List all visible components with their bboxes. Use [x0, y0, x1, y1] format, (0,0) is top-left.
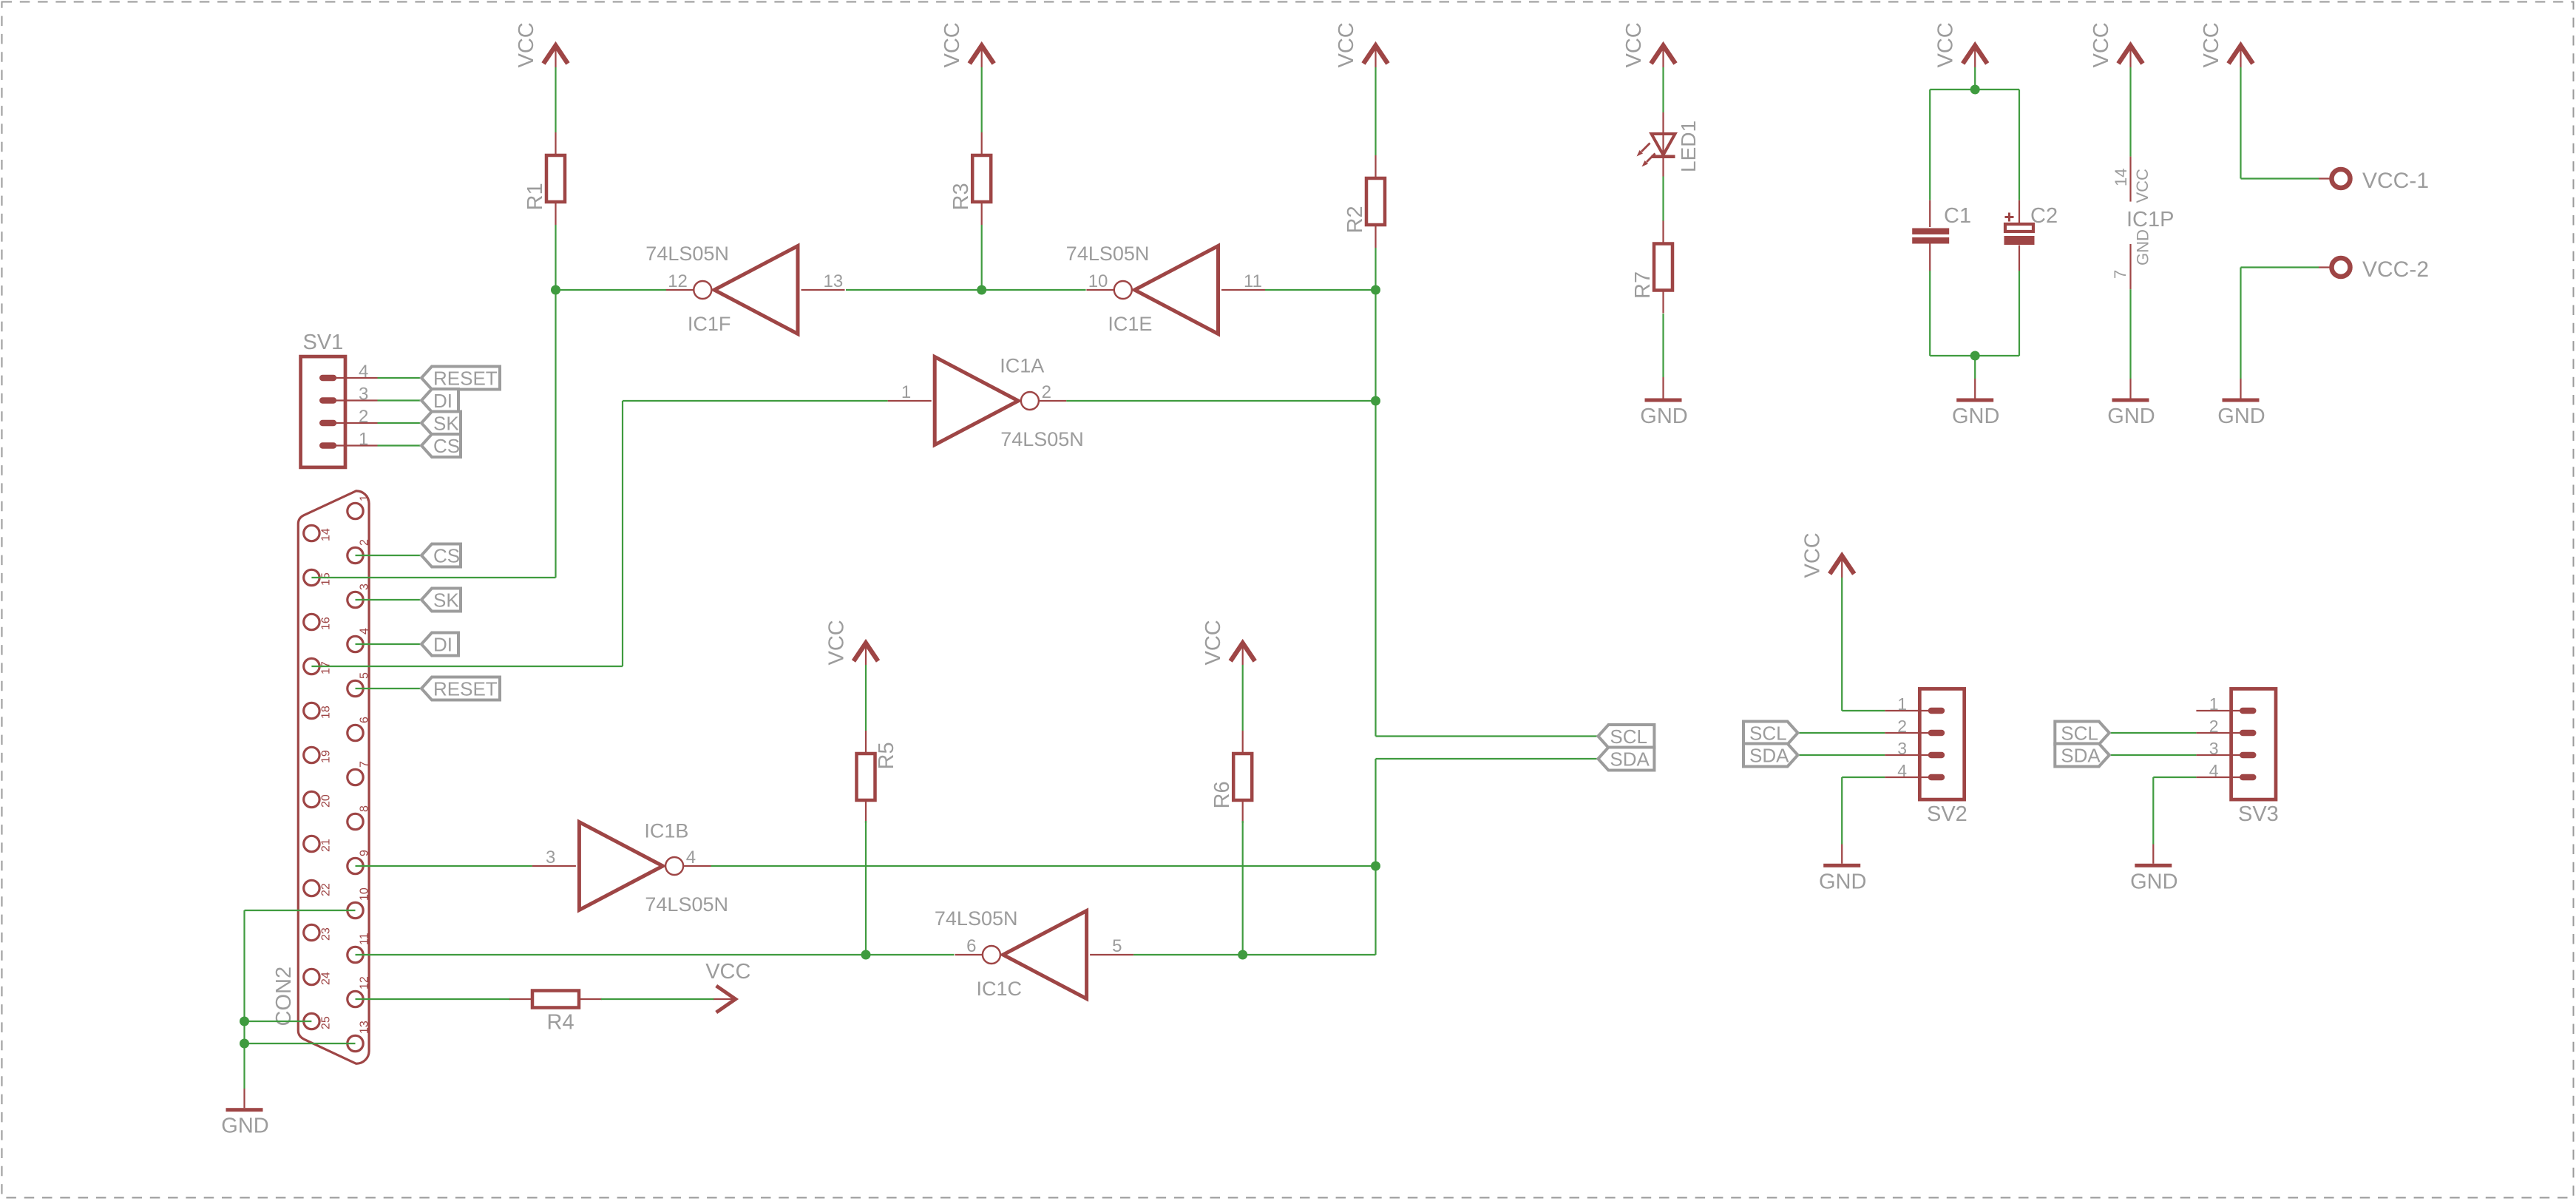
power VCC symbol (above LED1) [1622, 22, 1675, 67]
wire C1 to bottom rail [1929, 271, 1931, 356]
svg-text:1: 1 [359, 495, 371, 501]
wire SV3 GND drop [2152, 777, 2154, 845]
SV3 pad pin 2 [2240, 730, 2257, 736]
svg-text:74LS05N: 74LS05N [645, 243, 729, 265]
net label DI (CON2) [421, 633, 458, 656]
inverter IC1C [935, 907, 1133, 1000]
inverter IC1E [1066, 243, 1265, 335]
svg-text:1: 1 [1897, 694, 1907, 714]
junction CON2 GND / pin 25 [240, 1017, 249, 1026]
wire CON2 pin11 to IC1C pin 6 (via R5 node) [356, 954, 955, 955]
svg-text:21: 21 [320, 839, 333, 852]
svg-text:3: 3 [359, 385, 368, 405]
SV1 pad pin 4 [319, 375, 336, 381]
svg-text:5: 5 [1112, 936, 1122, 956]
wire to SCL flag [1376, 735, 1599, 737]
power VCC symbol (above IC1P) [2089, 22, 2143, 67]
svg-text:3: 3 [359, 583, 371, 590]
wire CON2 to flag RESET [356, 688, 424, 689]
net label SDA (SV3) [2055, 744, 2109, 767]
SV2 pad pin 2 [1928, 730, 1945, 736]
junction R5 / IC1C out / pin11 [861, 950, 871, 960]
svg-text:GND: GND [2134, 229, 2152, 265]
svg-text:14: 14 [320, 528, 333, 541]
svg-text:4: 4 [359, 628, 371, 635]
ground GND (CON2) [221, 1108, 268, 1138]
wire from SDA flag [1376, 758, 1599, 759]
resistor R3 [949, 132, 991, 225]
resistor R2 [1343, 155, 1385, 248]
wire VCC to R5 [865, 665, 867, 731]
node VCC-2 pin circle [2332, 258, 2350, 277]
svg-text:IC1P: IC1P [2126, 208, 2174, 231]
pin GND stub (SV2) [1841, 845, 1843, 864]
wire VCC to SV2 pin 1 [1841, 578, 1843, 711]
svg-text:74LS05N: 74LS05N [1066, 243, 1150, 265]
svg-text:SV2: SV2 [1927, 802, 1967, 826]
wire SCL flag to SV3 pin 2 [2109, 732, 2197, 734]
SV2 pin 4 lead [1885, 777, 1936, 778]
CON2 pad pin 17 [304, 658, 319, 674]
svg-text:10: 10 [1088, 271, 1108, 291]
wire VCC to R3 [981, 67, 983, 132]
wire corner to IC1C pin 5 [1133, 954, 1375, 955]
CON2 pad pin 8 [348, 813, 363, 829]
CON2 pad pin 9 [348, 858, 363, 873]
CON2 pad pin 5 [348, 680, 363, 696]
wire VCC to R6 [1242, 665, 1244, 731]
svg-text:CS: CS [433, 435, 460, 457]
svg-text:RESET: RESET [433, 368, 498, 390]
wire SV1 pin 2 to flag SK [378, 422, 424, 424]
wire CON2 pin 25 (GND net) [245, 1021, 312, 1022]
svg-text:C2: C2 [2030, 204, 2058, 228]
net label SK (CON2) [421, 589, 461, 612]
wire R6 to IC1C in net [1242, 821, 1244, 955]
CON2 pad pin 4 [348, 636, 363, 652]
svg-text:3: 3 [2209, 739, 2219, 758]
CON2 pad pin 1 [348, 503, 363, 518]
wire VCC corner to SV2 pin1 [1842, 710, 1885, 711]
inverter IC1F [645, 243, 844, 335]
svg-text:VCC-2: VCC-2 [2362, 257, 2429, 282]
wire CON2 GND riser [243, 910, 245, 1089]
IC1P pin 14 VCC [2112, 157, 2152, 203]
svg-text:VCC-1: VCC-1 [2362, 169, 2429, 193]
CON2 pad pin 18 [304, 703, 319, 718]
wire node to IC1F pin 12 [556, 289, 667, 291]
wire SV1 pin 4 to flag RESET [378, 377, 424, 379]
pin GND stub (LED branch) [1662, 377, 1664, 399]
net label SCL (SV3) [2055, 722, 2109, 745]
svg-text:74LS05N: 74LS05N [645, 893, 728, 916]
wire cap bottom rail [1930, 355, 2019, 356]
net label RESET (SV1 pin 4) [421, 367, 500, 390]
power VCC symbol (right of R4) [705, 960, 750, 1012]
svg-text:SV3: SV3 [2238, 802, 2279, 826]
wire R3 to node [981, 225, 983, 290]
wire CON2 pin 17 row [311, 666, 623, 667]
pin GND stub (VCC-2) [2240, 379, 2241, 399]
wire SV3 pin 4 to GND corner [2153, 777, 2196, 778]
svg-text:8: 8 [359, 805, 371, 812]
svg-text:2: 2 [2209, 717, 2219, 736]
ground GND (caps) [1952, 399, 1999, 429]
CON2 pad pin 13 [348, 1035, 363, 1051]
svg-text:1: 1 [901, 382, 911, 402]
wire SV2 GND drop [1841, 777, 1843, 845]
svg-text:2: 2 [359, 539, 371, 546]
svg-text:SK: SK [433, 413, 459, 435]
svg-text:16: 16 [320, 617, 333, 630]
wire VCC arrow down [2240, 67, 2241, 179]
resistor R5 [857, 731, 899, 823]
svg-text:VCC: VCC [2133, 169, 2152, 203]
svg-text:13: 13 [824, 271, 844, 291]
pin VCC-1 stub [2319, 177, 2331, 179]
svg-text:IC1F: IC1F [688, 313, 731, 335]
SV2 pin 3 lead [1885, 754, 1936, 756]
connector SV1 body [301, 356, 345, 467]
svg-text:12: 12 [359, 976, 371, 989]
wire SDA flag to SV2 pin 3 [1798, 754, 1885, 756]
wire CON2 pin 9 to IC1B pin 3 [356, 865, 532, 867]
CON2 pad pin 25 [304, 1013, 319, 1029]
CON2 pad pin 3 [348, 592, 363, 607]
svg-text:15: 15 [320, 572, 333, 586]
svg-text:GND: GND [2107, 405, 2155, 428]
power VCC symbol (above R1) [515, 22, 568, 67]
svg-text:2: 2 [359, 407, 368, 427]
net label SK (SV1 pin 2) [421, 412, 461, 435]
svg-text:7: 7 [359, 761, 371, 768]
IC1P pin 7 GND [2111, 229, 2152, 289]
SV3 pin 3 lead [2196, 754, 2248, 756]
svg-text:SV1: SV1 [303, 331, 344, 354]
SV3 pin 2 lead [2196, 732, 2248, 734]
wire SV1 pin 1 to flag CS [378, 444, 424, 446]
svg-text:VCC: VCC [2200, 22, 2223, 67]
wire VCC to R1 [555, 67, 556, 132]
ground GND (SV2) [1819, 864, 1866, 894]
power VCC symbol (above R2) [1335, 22, 1388, 67]
SV2 pad pin 1 [1928, 708, 1945, 714]
svg-text:VCC: VCC [940, 22, 964, 67]
svg-text:14: 14 [2112, 169, 2130, 186]
power VCC symbol (above R5) [825, 620, 878, 665]
SV2 pin 2 lead [1885, 732, 1936, 734]
net label RESET (CON2) [421, 677, 500, 700]
svg-text:19: 19 [320, 750, 333, 763]
SV2 pad pin 3 [1928, 752, 1945, 758]
CON2 pad pin 15 [304, 569, 319, 585]
svg-text:GND: GND [221, 1114, 268, 1138]
svg-text:IC1E: IC1E [1108, 313, 1152, 335]
wire CON2 pin 15 to R1 node [311, 577, 555, 578]
svg-text:11: 11 [1244, 271, 1262, 291]
wire LED1 to R7 [1662, 177, 1664, 222]
inverter gate IC1A (74LS05N) [888, 355, 1084, 451]
SV1 pin 3 lead [329, 399, 378, 401]
power VCC symbol (above SV2) [1801, 532, 1854, 578]
svg-text:24: 24 [320, 972, 333, 985]
junction CON2 GND / pin 13 [240, 1039, 249, 1049]
wire rail to C2 [2019, 89, 2020, 200]
svg-text:4: 4 [2209, 761, 2219, 780]
svg-text:13: 13 [359, 1021, 371, 1034]
wire CON2 pin 13 (GND net) [245, 1043, 356, 1044]
SV1 pad pin 3 [319, 397, 336, 403]
wire SCL flag to SV2 pin 2 [1798, 732, 1885, 734]
CON2 pad pin 10 [348, 902, 363, 918]
svg-text:R2: R2 [1343, 206, 1367, 233]
junction IC1A output / SCL rail [1371, 396, 1380, 406]
CON2 pad pin 11 [348, 947, 363, 962]
CON2 pad pin 14 [304, 525, 319, 541]
connector SV2 body [1919, 689, 1964, 799]
svg-text:R3: R3 [949, 183, 973, 210]
svg-text:VCC: VCC [1934, 22, 1958, 67]
wire IC1P pin7 to GND [2129, 289, 2131, 379]
SV1 pad pin 1 [319, 442, 336, 448]
wire R4 to VCC [601, 998, 714, 1000]
power VCC symbol (above R3) [940, 22, 994, 67]
wire node down to CON2 pin15 row [555, 290, 556, 578]
wire SV1 pin 3 to flag DI [378, 399, 424, 401]
SV1 pin 4 lead [329, 377, 378, 379]
svg-text:7: 7 [2111, 270, 2129, 279]
svg-text:3: 3 [1897, 739, 1907, 758]
SV2 pad pin 4 [1928, 774, 1945, 780]
junction R1 / IC1F out / pin15 net [551, 285, 560, 295]
svg-text:11: 11 [359, 933, 371, 945]
SV3 pad pin 1 [2240, 708, 2257, 714]
power VCC symbol (above R6) [1201, 620, 1255, 665]
junction R6 / IC1C in [1238, 950, 1247, 960]
svg-text:25: 25 [320, 1016, 333, 1029]
svg-text:10: 10 [359, 887, 371, 901]
svg-text:R7: R7 [1631, 271, 1655, 299]
svg-text:VCC: VCC [705, 960, 750, 984]
wire CON2 pin17 net to IC1A pin 1 [623, 400, 888, 402]
CON2 pad pin 22 [304, 880, 319, 896]
svg-text:IC1A: IC1A [1000, 355, 1044, 377]
svg-text:6: 6 [966, 936, 976, 956]
junction SDA rail / IC1B out [1371, 862, 1380, 871]
inverter gate IC1B (74LS05N) [532, 820, 728, 916]
ground GND (SV3) [2130, 864, 2177, 894]
junction R2 / IC1E in [1371, 285, 1380, 295]
wire VCC to IC1P pin 14 [2129, 67, 2131, 157]
svg-text:GND: GND [2130, 870, 2177, 893]
CON2 pad pin 20 [304, 791, 319, 807]
svg-text:SDA: SDA [2061, 745, 2101, 767]
CON2 pad pin 6 [348, 725, 363, 740]
net label SCL (SV2) [1743, 722, 1798, 745]
SV3 pin 4 lead [2196, 777, 2248, 778]
SV2 pin 1 lead [1885, 710, 1936, 711]
wire R7 to GND [1662, 314, 1664, 377]
pin GND stub (CON2) [243, 1089, 245, 1108]
svg-text:5: 5 [359, 672, 371, 679]
wire IC1B pin 4 to rail [711, 865, 1376, 867]
svg-text:LED1: LED1 [1677, 121, 1700, 172]
junction cap bottom rail [1970, 351, 1980, 361]
power VCC symbol (top right, to VCC-1) [2200, 22, 2253, 67]
wire rail to GND [1974, 356, 1976, 379]
resistor R4 [509, 991, 602, 1035]
svg-text:VCC: VCC [825, 620, 849, 665]
capacitor C1 [1912, 200, 1971, 271]
svg-text:R6: R6 [1210, 781, 1234, 808]
SV3 pad pin 4 [2240, 774, 2257, 780]
svg-text:1: 1 [359, 430, 368, 450]
wire rail to IC1C input row [1375, 866, 1376, 955]
svg-text:GND: GND [2217, 405, 2265, 428]
svg-text:9: 9 [359, 850, 371, 856]
net label SCL (mid) [1598, 725, 1654, 748]
svg-text:6: 6 [359, 717, 371, 723]
SV3 pin 1 lead [2196, 710, 2248, 711]
svg-text:SCL: SCL [1610, 725, 1647, 748]
CON2 pad pin 19 [304, 747, 319, 762]
svg-text:22: 22 [320, 883, 333, 896]
svg-text:VCC: VCC [515, 22, 538, 67]
SV1 pin 2 lead [329, 422, 378, 424]
svg-text:VCC: VCC [1801, 532, 1825, 578]
svg-text:VCC: VCC [1201, 620, 1225, 665]
pin GND stub (IC1P) [2129, 379, 2131, 399]
CON2 pad pin 12 [348, 991, 363, 1007]
svg-text:CON2: CON2 [272, 967, 296, 1026]
svg-text:SCL: SCL [1749, 723, 1787, 745]
wire CON2 pin 12 to R4 [356, 998, 511, 1000]
SV1 pad pin 2 [319, 420, 336, 426]
connector CON2 body (DB25) [298, 491, 369, 1063]
resistor R6 [1210, 731, 1252, 823]
svg-text:17: 17 [320, 661, 333, 674]
wire CON2 pin 10 (GND net) [245, 910, 356, 911]
wire rail to C1 [1929, 89, 1931, 200]
svg-text:4: 4 [1897, 761, 1907, 780]
svg-text:VCC: VCC [2089, 22, 2113, 67]
svg-text:18: 18 [320, 706, 333, 719]
wire vertical DI/pin17 riser [622, 401, 623, 666]
svg-text:3: 3 [546, 848, 555, 867]
svg-text:74LS05N: 74LS05N [1000, 428, 1084, 450]
wire SDA rail down [1375, 759, 1376, 866]
junction R3 / IC1F-IC1E net [977, 285, 986, 295]
wire R1 to node [555, 225, 556, 290]
CON2 pad pin 7 [348, 769, 363, 785]
ground GND (IC1P) [2107, 399, 2155, 429]
svg-text:IC1B: IC1B [644, 820, 688, 842]
svg-text:SK: SK [433, 589, 459, 612]
wire R5 to IC1C out net [865, 821, 867, 955]
junction cap top rail [1970, 85, 1980, 95]
svg-text:DI: DI [433, 634, 453, 656]
svg-text:C1: C1 [1944, 204, 1971, 228]
wire IC1E pin 11 to R2 node [1265, 289, 1376, 291]
CON2 pad pin 21 [304, 836, 319, 851]
node VCC-1 pin circle [2332, 169, 2350, 188]
svg-text:2: 2 [1897, 717, 1907, 736]
resistor R1 [523, 132, 565, 225]
wire VCC to LED1 [1662, 67, 1664, 112]
svg-text:23: 23 [320, 927, 333, 941]
connector SV3 body [2231, 689, 2276, 799]
wire CON2 to flag DI [356, 643, 424, 645]
svg-text:IC1C: IC1C [977, 978, 1023, 1000]
svg-text:CS: CS [433, 545, 460, 567]
wire R2 node down to IC1A out node [1375, 290, 1376, 401]
net label SDA (mid) [1598, 748, 1654, 771]
SV1 pin 1 lead [329, 444, 378, 446]
SV3 pad pin 3 [2240, 752, 2257, 758]
CON2 pad pin 2 [348, 547, 363, 563]
svg-text:VCC: VCC [1335, 22, 1358, 67]
wire IC1A pin 2 to rail [1066, 400, 1375, 402]
pin GND stub (SV3) [2152, 845, 2154, 864]
wire CON2 to flag CS [356, 555, 424, 556]
wire SV2 pin 4 to GND corner [1842, 777, 1885, 778]
net label CS (CON2) [421, 544, 461, 567]
wire C2 to bottom rail [2019, 271, 2020, 356]
svg-text:VCC: VCC [1622, 22, 1646, 67]
wire VCC-2 to drop [2241, 266, 2319, 268]
wire IC1F pin13 to IC1E pin10 (via R3 node) [846, 289, 1086, 291]
svg-text:GND: GND [1819, 870, 1866, 893]
svg-text:GND: GND [1640, 405, 1687, 428]
wire VCC to cap rail [1974, 67, 1976, 89]
svg-text:RESET: RESET [433, 678, 498, 700]
svg-text:R4: R4 [547, 1011, 574, 1035]
wire rail to SCL branch [1375, 401, 1376, 737]
capacitor C2 (polarized) [2004, 200, 2058, 271]
svg-text:R1: R1 [523, 183, 547, 210]
resistor R7 [1631, 221, 1672, 314]
wire cap top rail [1930, 89, 2019, 90]
svg-text:20: 20 [320, 794, 333, 808]
pin GND stub (caps) [1974, 379, 1976, 399]
pin VCC-2 stub [2319, 266, 2331, 268]
ground GND (LED branch) [1640, 399, 1687, 429]
svg-text:4: 4 [686, 848, 696, 867]
net label SDA (SV2) [1743, 744, 1798, 767]
wire CON2 to flag SK [356, 599, 424, 600]
svg-text:4: 4 [359, 362, 368, 382]
power VCC symbol (above C1 C2) [1934, 22, 1987, 67]
svg-text:SDA: SDA [1610, 748, 1650, 771]
wire to VCC-1 pin [2241, 177, 2319, 179]
wire VCC to R2 [1375, 67, 1376, 155]
svg-text:1: 1 [2209, 694, 2219, 714]
wire VCC-2 drop down [2240, 268, 2241, 379]
svg-text:2: 2 [1042, 382, 1051, 402]
svg-text:GND: GND [1952, 405, 1999, 428]
svg-text:12: 12 [668, 271, 688, 291]
CON2 pad pin 23 [304, 924, 319, 940]
svg-text:R5: R5 [875, 742, 898, 769]
CON2 pad pin 16 [304, 614, 319, 629]
wire R2 to node [1375, 248, 1376, 290]
svg-text:74LS05N: 74LS05N [935, 907, 1018, 930]
wire SDA flag to SV3 pin 3 [2109, 754, 2197, 756]
CON2 pad pin 24 [304, 969, 319, 984]
svg-text:SCL: SCL [2061, 723, 2098, 745]
ground GND (VCC-2 drop) [2217, 399, 2265, 429]
LED LED1 [1637, 112, 1701, 177]
